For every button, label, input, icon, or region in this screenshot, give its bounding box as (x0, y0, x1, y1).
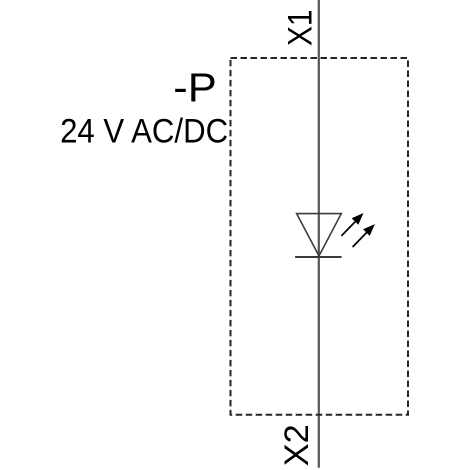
pilot light -P enclosure (dashed outline) (231, 58, 409, 415)
svg-text:X1: X1 (282, 10, 320, 47)
LED emission arrow 2 (353, 224, 375, 247)
svg-text:24 V AC/DC: 24 V AC/DC (60, 113, 228, 151)
wire vertical main (X1 to X2 through LED) (318, 0, 320, 468)
svg-text:-P: -P (173, 64, 217, 110)
LED cathode bar (295, 256, 342, 258)
LED triangle (anode) (297, 214, 342, 256)
LED emission arrow 1 (341, 213, 363, 236)
svg-text:X2: X2 (278, 424, 316, 466)
